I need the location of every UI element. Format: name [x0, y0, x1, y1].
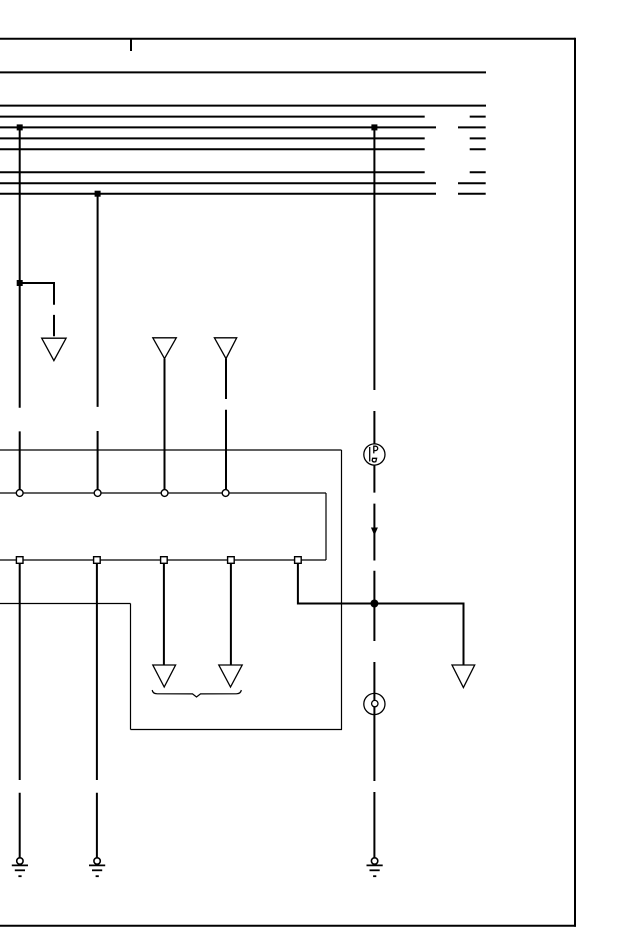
wire 3 from arrow B to connector row 1: [164, 359, 166, 490]
arrow A (open triangle down): [42, 338, 66, 360]
component outline right edge: [341, 450, 343, 730]
bus line 8: [0, 193, 486, 195]
wire 5 below connector 1: [373, 465, 375, 693]
junction dot on bus line 8 at wire 2: [95, 191, 101, 197]
bus line 6: [0, 171, 486, 173]
ground G3: [367, 858, 383, 876]
frame top border: [0, 38, 575, 40]
frame right border: [574, 38, 576, 927]
wire 2 upper segment: [97, 194, 99, 490]
component outline bottom edge: [131, 729, 343, 731]
wire 2 lower segment to ground: [96, 563, 98, 858]
component outline left step vertical: [130, 604, 132, 730]
bus line 1: [0, 105, 486, 107]
ground G1: [12, 858, 28, 876]
junction dot wire 1 branch: [17, 280, 23, 286]
wire 5 lower segment to ground: [373, 707, 375, 858]
bus line 2: [0, 116, 486, 118]
row 1 pin 1: [16, 490, 23, 497]
component outline top edge: [0, 449, 342, 451]
row 1 pin 4: [222, 490, 229, 497]
ground G2: [89, 858, 105, 876]
bus line 3: [0, 126, 486, 128]
wire 8 from row 2 pin 5: [298, 563, 464, 664]
branch wire to arrow A: [20, 283, 54, 336]
bus line 5: [0, 148, 486, 150]
wire 1 lower segment to ground: [19, 563, 21, 858]
wire 4 from arrow C to connector row 1: [225, 359, 227, 490]
row 2 pin 5: [295, 557, 302, 564]
arrow F (open triangle down): [452, 665, 475, 688]
row 1 pin 2: [94, 490, 101, 497]
row 2 pin 4: [228, 557, 235, 564]
bus line A: [0, 71, 486, 73]
arrow E (open triangle down): [219, 665, 242, 687]
wire 6 from row 2 pin 3: [163, 563, 165, 665]
arrow B (open triangle down, feeds wire 3): [153, 338, 177, 359]
row 2 pin 3: [161, 557, 168, 564]
row 1 pin 3: [161, 490, 168, 497]
component outline left step horizontal: [0, 603, 131, 605]
row 2 pin 1: [16, 557, 23, 564]
junction dot wire 8 crossing wire 5: [370, 600, 378, 608]
brace under arrows D and E: [152, 690, 241, 697]
tick on top border: [130, 39, 132, 51]
wire 7 from row 2 pin 4: [230, 563, 232, 665]
connector row 1 line: [0, 492, 326, 494]
wire 5 upper segment: [373, 127, 375, 443]
bus line 4: [0, 137, 486, 139]
inline connector symbol 2: [364, 693, 385, 714]
connector row 2 line: [0, 559, 326, 561]
frame bottom border: [0, 925, 576, 927]
row 2 pin 2: [94, 557, 101, 564]
connector box right edge: [325, 493, 327, 560]
inline connector symbol 1: [364, 444, 385, 465]
bus line 7: [0, 182, 486, 184]
wire 1 upper segment: [19, 127, 21, 490]
arrow D (open triangle down): [153, 665, 176, 687]
direction arrowhead on wire 5: [371, 528, 378, 536]
junction dot on bus line 3 at wire 1: [17, 124, 23, 130]
junction dot on bus line 3 at wire 5: [371, 124, 377, 130]
arrow C (open triangle down, feeds wire 4): [214, 338, 236, 359]
